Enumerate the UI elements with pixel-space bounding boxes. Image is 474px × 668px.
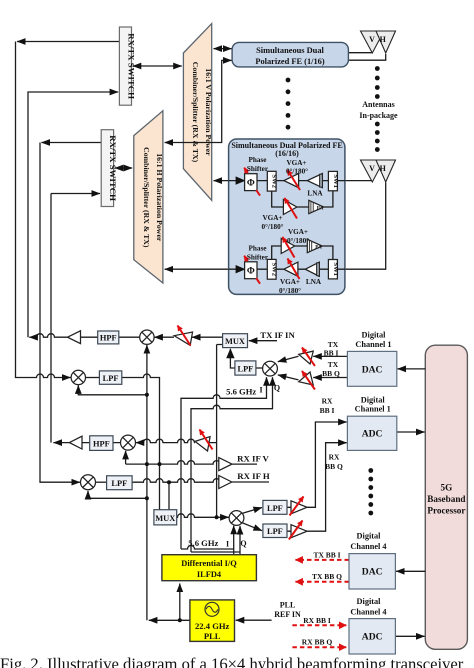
svg-text:Processor: Processor [427,506,465,516]
svg-text:RX IF H: RX IF H [237,471,270,481]
svg-text:PLL: PLL [280,601,296,610]
svg-text:Differential I/Q: Differential I/Q [181,559,237,568]
svg-text:Combiner/Splitter (RX & TX): Combiner/Splitter (RX & TX) [191,62,200,163]
svg-text:Shifter: Shifter [247,254,269,262]
svg-text:HPF: HPF [93,440,110,449]
svg-text:ADC: ADC [362,429,383,440]
svg-text:I: I [259,386,262,395]
svg-text:Shifter: Shifter [247,165,269,173]
svg-text:Digital: Digital [357,532,382,541]
svg-text:ILFD4: ILFD4 [197,570,222,579]
svg-text:Polarized FE (1/16): Polarized FE (1/16) [255,57,325,66]
svg-text:HPF: HPF [100,334,117,343]
svg-text:MUX: MUX [155,514,175,523]
svg-text:SW2: SW2 [271,263,278,277]
svg-text:VGA+: VGA+ [286,159,306,167]
svg-text:VGA+: VGA+ [262,214,282,222]
svg-text:Antennas: Antennas [362,100,394,109]
svg-text:Q: Q [240,539,246,548]
svg-text:VGA+: VGA+ [288,228,308,236]
svg-text:DAC: DAC [362,364,383,375]
svg-text:22.4 GHz: 22.4 GHz [195,621,230,631]
svg-text:0°/180°: 0°/180° [287,237,309,245]
svg-text:LPF: LPF [237,365,253,374]
svg-text:5G: 5G [441,483,453,493]
svg-text:16:1 V Polarization Power: 16:1 V Polarization Power [204,68,213,156]
svg-text:RX: RX [329,453,340,462]
svg-text:Channel 1: Channel 1 [355,340,391,349]
svg-text:0°/180°: 0°/180° [286,168,308,176]
svg-text:Digital: Digital [357,597,382,606]
svg-text:BB I: BB I [320,406,335,415]
svg-text:Φ: Φ [247,179,255,189]
svg-text:SW2: SW2 [271,174,278,188]
svg-text:BB Q: BB Q [325,462,343,471]
svg-text:H: H [380,35,387,44]
svg-text:In-package: In-package [359,111,398,120]
svg-text:TX IF IN: TX IF IN [260,330,295,340]
svg-text:LNA: LNA [306,278,322,286]
svg-text:RX/TX SWITCH: RX/TX SWITCH [108,135,118,201]
svg-text:PLL: PLL [204,631,221,641]
svg-text:Channel 4: Channel 4 [350,608,386,617]
svg-text:MUX: MUX [225,337,245,346]
svg-text:LPF: LPF [111,479,127,488]
svg-text:BB Q: BB Q [322,369,340,378]
svg-text:16:1 H Polarization Power: 16:1 H Polarization Power [155,153,164,242]
svg-text:Baseband: Baseband [427,494,465,504]
svg-text:RX BB I: RX BB I [303,616,331,625]
svg-text:Q: Q [274,383,280,392]
svg-text:DAC: DAC [362,567,383,578]
svg-text:0°/180°: 0°/180° [279,287,301,295]
svg-text:PA: PA [317,206,324,212]
svg-text:5.6 GHz: 5.6 GHz [188,538,218,548]
svg-text:SW1: SW1 [332,262,339,276]
svg-text:TX BB Q: TX BB Q [312,572,342,581]
svg-text:0°/180°: 0°/180° [261,223,283,231]
svg-text:PA: PA [315,245,322,251]
svg-text:Channel 1: Channel 1 [355,405,391,414]
svg-text:SW1: SW1 [332,174,339,188]
svg-text:H: H [380,164,387,173]
svg-text:TX: TX [328,360,339,369]
svg-text:(16/16): (16/16) [275,149,299,158]
svg-text:LPF: LPF [267,527,283,536]
svg-text:Combiner/Splitter (RX & TX): Combiner/Splitter (RX & TX) [142,147,151,248]
svg-text:LPF: LPF [103,374,119,383]
svg-text:LNA: LNA [307,190,323,198]
svg-text:Digital: Digital [361,395,386,404]
svg-text:ADC: ADC [362,632,383,643]
svg-text:REF IN: REF IN [274,610,301,619]
svg-text:V: V [369,35,375,44]
svg-text:TX BB I: TX BB I [313,551,340,560]
svg-text:RX/TX SWITCH: RX/TX SWITCH [126,33,136,99]
svg-text:Phase: Phase [249,245,267,253]
svg-text:Phase: Phase [249,156,267,164]
svg-text:Channel 4: Channel 4 [350,542,386,551]
svg-text:RX IF V: RX IF V [237,453,269,463]
svg-text:Digital: Digital [362,331,387,340]
svg-text:V: V [369,164,375,173]
svg-text:RX BB Q: RX BB Q [302,637,333,646]
svg-text:LPF: LPF [267,504,283,513]
svg-text:Simultaneous Dual: Simultaneous Dual [256,46,324,55]
svg-text:I: I [226,539,229,548]
svg-text:Φ: Φ [247,267,255,277]
svg-text:Fig. 2. Illustrative diagram o: Fig. 2. Illustrative diagram of a 16×4 h… [0,655,464,668]
svg-text:5.6 GHz: 5.6 GHz [226,387,256,397]
svg-text:RX: RX [322,397,333,406]
svg-text:VGA+: VGA+ [280,278,300,286]
svg-text:BB I: BB I [324,349,339,358]
